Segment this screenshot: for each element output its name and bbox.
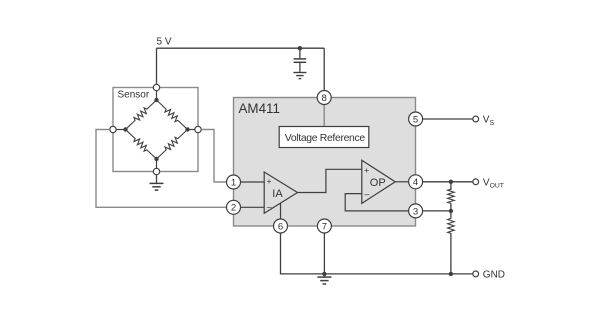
bridge resistor (bottom-right) xyxy=(157,130,188,160)
junction: decoupling cap tap xyxy=(298,46,302,50)
wire bridge left to pin 2 xyxy=(96,130,227,208)
svg-text:3: 3 xyxy=(413,206,418,217)
wire 5V rail xyxy=(157,47,325,49)
pin 8 xyxy=(317,91,331,105)
terminal bridge top xyxy=(153,84,159,90)
wire pin 3 to divider xyxy=(423,210,451,212)
wire pin 5 to Vs terminal xyxy=(423,118,473,120)
wire pin 7 to ground rail xyxy=(323,233,325,274)
wire pin 6 to ground rail xyxy=(281,233,473,274)
wire pin 8 to voltage reference xyxy=(323,104,325,127)
svg-text:5 V: 5 V xyxy=(157,37,172,48)
bridge stub bottom xyxy=(156,159,158,172)
junction: pin 7 ground xyxy=(322,272,326,276)
terminal GND xyxy=(473,271,479,277)
svg-text:4: 4 xyxy=(413,177,419,188)
pin 1 xyxy=(227,175,241,189)
wire bridge bottom to ground xyxy=(156,175,158,183)
svg-text:7: 7 xyxy=(322,221,327,232)
svg-text:GND: GND xyxy=(483,270,505,281)
svg-text:5: 5 xyxy=(413,114,418,125)
svg-text:AM411: AM411 xyxy=(239,101,280,116)
node bridge top xyxy=(154,98,158,102)
terminal Vout xyxy=(473,179,479,185)
junction: pin 3 / divider xyxy=(449,209,453,213)
svg-text:Sensor: Sensor xyxy=(118,89,150,100)
pin 5 xyxy=(409,112,423,126)
ground (bridge) xyxy=(150,183,164,190)
pin 4 xyxy=(409,175,423,189)
bridge stub left xyxy=(113,129,126,131)
svg-text:+: + xyxy=(267,176,272,186)
svg-text:+: + xyxy=(364,165,369,175)
terminal bridge bottom xyxy=(153,168,159,174)
IC U1 AM411 body xyxy=(234,98,416,227)
bridge resistor (bottom-left) xyxy=(126,130,157,160)
voltage reference block xyxy=(279,127,369,148)
node bridge left xyxy=(123,127,127,131)
wire 5V rail drop to pin 8 xyxy=(323,48,325,91)
terminal bridge right xyxy=(195,126,201,132)
pin 7 xyxy=(317,219,331,233)
svg-text:1: 1 xyxy=(231,177,236,188)
svg-text:8: 8 xyxy=(322,93,327,104)
wire OP- feedback from pin 3 xyxy=(345,194,409,211)
pin 6 xyxy=(274,219,288,233)
bridge resistor (top-left) xyxy=(126,100,157,130)
svg-text:6: 6 xyxy=(278,221,283,232)
pin 3 xyxy=(409,204,423,218)
node bridge right xyxy=(185,127,189,131)
wire 5V rail drop to bridge top xyxy=(156,48,158,84)
junction: pin 4 / divider xyxy=(449,180,453,184)
svg-text:–: – xyxy=(267,202,272,212)
svg-text:–: – xyxy=(364,189,369,199)
svg-text:VOUT: VOUT xyxy=(483,177,504,189)
node bridge bottom xyxy=(154,157,158,161)
svg-text:2: 2 xyxy=(231,203,236,214)
bridge resistor (top-right) xyxy=(157,100,188,130)
svg-text:OP: OP xyxy=(370,177,386,189)
ground (pin 7) xyxy=(317,274,331,284)
terminal bridge left xyxy=(110,126,116,132)
resistor R2 (divider bottom) xyxy=(448,211,455,274)
terminal Vs xyxy=(473,116,479,122)
bridge stub top xyxy=(156,88,158,101)
svg-text:VS: VS xyxy=(483,115,495,127)
sensor box xyxy=(113,88,198,172)
wire OP out to pin 4 xyxy=(395,181,409,183)
wire pin 1 to IA+ xyxy=(241,181,265,183)
pin 2 xyxy=(227,200,241,214)
wire pin 2 to IA- xyxy=(241,206,265,208)
junction: ground rail / GND terminal xyxy=(449,272,453,276)
wire IA ref to pin 6 xyxy=(280,203,282,219)
wire IA out to OP+ xyxy=(298,169,362,192)
resistor R1 (divider top) xyxy=(448,182,455,211)
op-amp OP xyxy=(362,160,395,203)
bridge stub right xyxy=(188,129,199,131)
op-amp IA xyxy=(264,172,297,213)
wire pin 4 to Vout terminal xyxy=(423,181,473,183)
capacitor C1 xyxy=(294,48,307,72)
wire bridge right to pin 1 xyxy=(201,130,226,183)
svg-text:Voltage Reference: Voltage Reference xyxy=(285,133,366,144)
svg-text:IA: IA xyxy=(272,188,283,200)
ground (capacitor) xyxy=(293,73,306,79)
